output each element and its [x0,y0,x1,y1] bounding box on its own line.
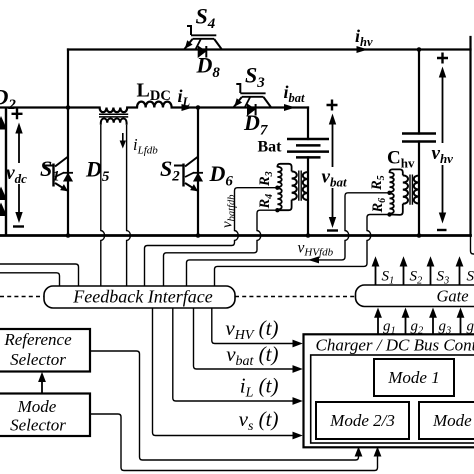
wire main rail y=107.5 [0,106,308,108]
box Charger DC Bus Controller [304,334,474,447]
diode D8 [198,46,206,57]
IGBT S2 [174,157,198,191]
wire R3R4 parallel loop [277,164,291,210]
box Gate Driver [356,285,474,307]
arrow vbat voltage [332,120,334,222]
node battery bottom [306,233,311,238]
current transformer core [99,114,128,117]
diode D7 [248,104,256,115]
current transformer primary [100,108,128,113]
transformer1 secondary [303,172,308,200]
wire vbat signal [194,308,297,369]
svg-text:Selector: Selector [10,416,66,435]
diode D5 [63,172,73,174]
battery Bat [287,139,329,157]
box Mode 4 [419,402,474,439]
svg-text:Feedback Interface: Feedback Interface [72,287,212,307]
svg-text:Bat: Bat [258,139,283,156]
arrow g4 [460,315,462,334]
arrow S4 gate signal [459,264,461,285]
wire iL signal [173,308,297,401]
transformer2 core [410,175,412,205]
box Feedback Interface [44,286,235,308]
node S2 bottom [196,233,201,238]
wire battery bottom x=308 [307,157,309,235]
transformer2 secondary [414,176,419,204]
arrow g2 [405,315,407,334]
IGBT S4 horizontal [185,26,222,49]
wire top rail y=49.5 [68,48,471,50]
minus vhv [437,229,447,231]
current transformer secondary [101,118,127,124]
transformer1 core [299,171,301,201]
plus vbat [327,100,338,111]
wire S2 leg x=198 [197,108,199,236]
wire CT secondary right with bus hop [127,125,131,287]
diode left bottom [0,203,7,217]
diode left top [0,116,7,130]
wire R5R6 parallel loop [390,169,403,215]
arrow iL on main rail [182,104,193,111]
svg-text:Charger / DC Bus Controller: Charger / DC Bus Controller [316,336,474,355]
IGBT S1 [44,157,68,191]
node Chv bottom [417,233,422,238]
node R6 bottom [387,212,391,216]
svg-text:vs (t): vs (t) [239,407,279,434]
svg-text:Gate: Gate [437,287,469,306]
plus vhv [437,53,448,64]
wire left elbow 1 to feedback [0,264,79,287]
wire R4 bottom to feedback [164,210,278,286]
diode left mid [0,187,7,201]
arrow S2 gate signal [403,264,405,285]
arrow mode to reference [41,378,43,393]
box Mode Selector [0,394,90,437]
arrow ibat [284,104,295,111]
wire vs signal [153,308,297,436]
wire Chv drop x=419 [418,50,420,236]
wire right edge below bus [471,236,474,255]
minus vdc [13,225,24,227]
arrow vhv voltage [442,73,444,214]
minus vbat [327,229,338,231]
dashed link left [0,296,44,298]
svg-text:Mode 1: Mode 1 [387,368,439,387]
svg-text:Reference: Reference [3,330,72,349]
arrow S3 gate signal [430,264,432,285]
svg-text:S4: S4 [467,269,474,287]
svg-text:Selector: Selector [10,350,66,369]
arrow S1 gate signal [375,264,377,285]
wire R6 bottom to feedback [215,215,390,287]
left rail [5,108,7,236]
resistor R4 [277,188,281,209]
wire mode selector to controller [90,414,378,471]
node S2 top [196,105,201,110]
resistor R5 [390,172,394,192]
IGBT S3 horizontal [234,84,271,107]
arrow g1 [377,315,379,334]
node R4 bottom [275,208,279,212]
svg-text:Mode 4: Mode 4 [432,411,474,430]
diode D6 [193,172,203,174]
arrow ihv [357,46,368,53]
wire right edge vertical x=470.5 [469,37,471,236]
resistor R6 [390,193,394,213]
wire riser x=68 from top rail to main rail [67,50,69,108]
wire S1 leg x=68 [67,108,69,236]
arrow vHVfdb [308,256,319,263]
box Mode 1 [374,359,454,396]
svg-text:Mode: Mode [17,397,57,416]
node Chv top [417,47,422,52]
arrow vdc voltage [18,129,20,217]
node S1 top [66,105,71,110]
wire battery drop x=308 [307,108,309,140]
wire CT secondary left with bus hop [101,125,105,287]
box Reference Selector [0,329,90,372]
svg-text:Mode 2/3: Mode 2/3 [329,411,395,430]
wire vbatfdb tap to feedback [145,188,278,287]
plus vdc [12,108,23,119]
wire vHV signal [212,308,297,344]
arrow iLfdb [122,133,124,143]
box controller inner [311,355,474,443]
transformer1 primary [292,171,297,199]
inductor LDC [137,102,172,108]
box Mode 2/3 [316,402,409,439]
wire vHVfdb tap to feedback [187,193,390,287]
node S1 bottom [66,233,71,238]
wire reference selector to controller [90,351,359,460]
wire left elbow 2 to feedback [0,273,60,287]
ground bus y=235.5 [0,234,471,237]
node R3R4 tap [275,186,279,190]
resistor R3 [277,167,281,187]
svg-text:iL (t): iL (t) [240,374,279,401]
capacitor Chv [402,134,436,142]
node R5R6 tap [387,191,391,195]
dashed link mid [235,296,356,298]
transformer2 primary [403,175,408,203]
arrow g3 [432,315,434,334]
